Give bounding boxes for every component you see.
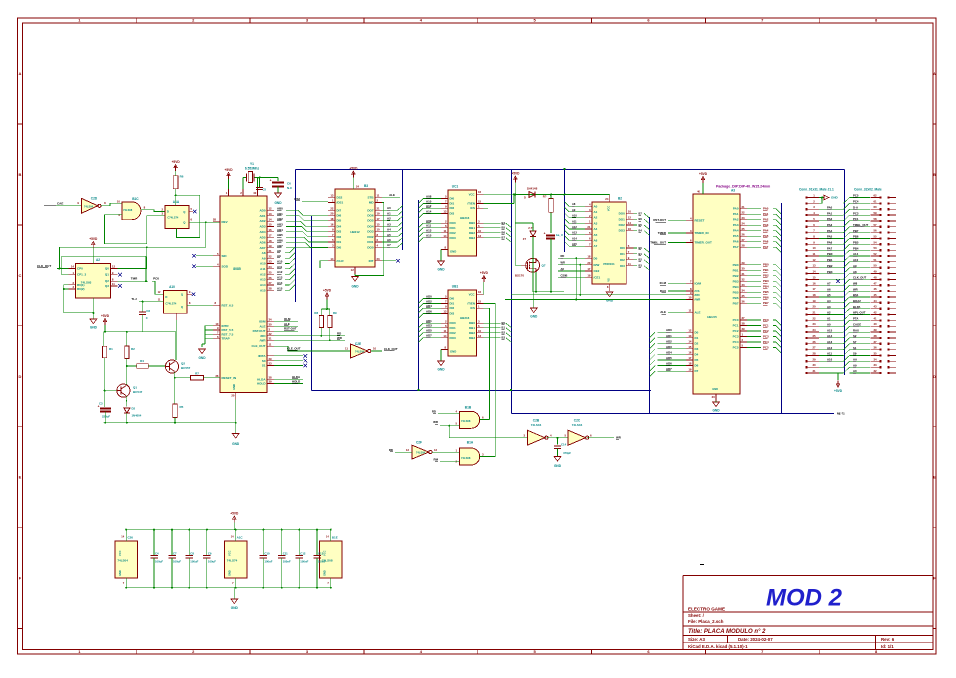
- svg-text:AD2: AD2: [666, 339, 672, 343]
- svg-text:ba_U: ba_U: [556, 233, 563, 237]
- svg-text:A9: A9: [277, 254, 281, 258]
- svg-text:6.553Mhz: 6.553Mhz: [245, 166, 260, 170]
- svg-text:PA4: PA4: [733, 229, 739, 233]
- svg-text:GND: GND: [530, 315, 538, 319]
- svg-text:13: 13: [812, 264, 816, 268]
- svg-text:CLK_OUT: CLK_OUT: [37, 264, 51, 268]
- svg-text:46: 46: [873, 287, 877, 291]
- svg-text:PB4: PB4: [763, 285, 769, 289]
- svg-text:14: 14: [443, 334, 447, 338]
- svg-text:B2: B2: [618, 197, 622, 201]
- svg-text:B5: B5: [639, 223, 643, 227]
- svg-text:74LS04: 74LS04: [117, 559, 128, 563]
- svg-text:+5VD: +5VD: [172, 160, 181, 164]
- svg-text:WR: WR: [561, 261, 565, 265]
- svg-text:PC5: PC5: [733, 346, 739, 350]
- svg-text:32: 32: [269, 332, 273, 336]
- svg-text:24: 24: [605, 197, 609, 201]
- svg-text:A14: A14: [572, 236, 577, 240]
- svg-text:PC5: PC5: [763, 346, 769, 350]
- svg-text:A1: A1: [594, 210, 598, 214]
- svg-text:31: 31: [742, 272, 746, 276]
- svg-text:220uF: 220uF: [102, 415, 110, 419]
- svg-text:PC4: PC4: [763, 340, 769, 344]
- svg-text:ALE: ALE: [260, 325, 266, 329]
- svg-text:74LS08: 74LS08: [461, 419, 471, 423]
- svg-text:PB2: PB2: [763, 274, 769, 278]
- svg-text:21: 21: [269, 249, 273, 253]
- svg-text:GND: GND: [606, 299, 614, 303]
- svg-text:100nF: 100nF: [300, 560, 308, 564]
- svg-text:PB3: PB3: [827, 270, 833, 274]
- svg-text:ELECTRO GAME: ELECTRO GAME: [688, 606, 725, 611]
- svg-text:A15: A15: [827, 328, 833, 332]
- svg-text:A0: A0: [827, 322, 831, 326]
- svg-text:D0: D0: [594, 256, 598, 260]
- svg-text:HB216: HB216: [460, 216, 470, 220]
- svg-text:C10: C10: [264, 552, 270, 556]
- svg-text:GND: GND: [323, 570, 327, 576]
- svg-text:11: 11: [269, 342, 272, 346]
- svg-text:D: D: [165, 295, 167, 299]
- svg-text:40: 40: [873, 322, 877, 326]
- svg-text:PB6: PB6: [763, 296, 769, 300]
- svg-text:C14: C14: [561, 443, 567, 447]
- svg-text:DO0: DO0: [619, 212, 626, 216]
- svg-text:42: 42: [873, 311, 877, 315]
- svg-text:PA4: PA4: [827, 229, 833, 233]
- svg-text:File: Placa_2.sch: File: Placa_2.sch: [688, 619, 724, 624]
- svg-text:TLJ: TLJ: [131, 297, 137, 301]
- svg-text:A6: A6: [594, 239, 598, 243]
- svg-text:PB0: PB0: [763, 263, 769, 267]
- svg-text:WR: WR: [853, 287, 858, 291]
- svg-text:AB6: AB6: [277, 239, 283, 243]
- svg-text:16: 16: [478, 190, 482, 194]
- svg-text:VCC: VCC: [227, 550, 231, 556]
- svg-text:N.C: N.C: [287, 186, 293, 190]
- svg-text:23: 23: [377, 257, 381, 261]
- svg-text:19: 19: [688, 367, 692, 371]
- svg-text:47: 47: [873, 281, 877, 285]
- svg-text:AB3: AB3: [277, 222, 283, 226]
- svg-text:11: 11: [444, 329, 447, 333]
- svg-text:/RD: /RD: [260, 334, 266, 338]
- svg-text:33: 33: [269, 362, 273, 366]
- svg-text:A11: A11: [426, 224, 432, 228]
- svg-text:AB1: AB1: [277, 212, 283, 216]
- svg-text:56: 56: [873, 229, 877, 233]
- svg-text:A11: A11: [827, 352, 832, 356]
- svg-text:100uF: 100uF: [208, 560, 216, 564]
- svg-text:PC3: PC3: [853, 211, 859, 215]
- svg-text:PB7: PB7: [853, 229, 859, 233]
- svg-text:GND: GND: [712, 387, 718, 391]
- svg-text:A14: A14: [277, 281, 283, 285]
- svg-text:16: 16: [269, 228, 273, 232]
- svg-text:BOA2: BOA2: [853, 299, 861, 303]
- svg-text:15: 15: [688, 345, 692, 349]
- svg-text:/INTA: /INTA: [258, 354, 266, 358]
- svg-text:A2: A2: [96, 258, 100, 262]
- svg-text:GND: GND: [90, 326, 98, 330]
- svg-text:DI2: DI2: [620, 258, 625, 262]
- svg-text:PA5: PA5: [827, 235, 833, 239]
- svg-text:24: 24: [269, 265, 273, 269]
- svg-text:RESET_IN: RESET_IN: [222, 376, 237, 380]
- svg-text:B7: B7: [639, 211, 643, 215]
- svg-text:10: 10: [377, 228, 381, 232]
- svg-text:DI1: DI1: [450, 202, 455, 206]
- svg-text:Size: A3: Size: A3: [688, 637, 705, 642]
- svg-text:A08: A08: [426, 195, 432, 199]
- svg-text:VCC: VCC: [469, 293, 475, 297]
- svg-text:AD6: AD6: [666, 362, 672, 366]
- svg-text:GND: GND: [450, 250, 456, 254]
- svg-text:CAE: CAE: [57, 202, 63, 206]
- svg-text:C2D: C2D: [91, 197, 98, 201]
- svg-text:DO0: DO0: [450, 321, 457, 325]
- svg-text:DI1: DI1: [450, 302, 455, 306]
- svg-text:D0: D0: [695, 330, 699, 334]
- svg-text:PB7: PB7: [763, 301, 769, 305]
- svg-text:B6: B6: [502, 231, 506, 235]
- svg-text:AD0: AD0: [259, 209, 265, 213]
- svg-text:A14: A14: [260, 283, 266, 287]
- svg-text:/CS: /CS: [470, 206, 475, 210]
- svg-text:HPL-OUT: HPL-OUT: [853, 311, 866, 315]
- svg-text:11: 11: [345, 347, 348, 351]
- svg-text:C5: C5: [263, 188, 267, 192]
- svg-text:23: 23: [812, 322, 816, 326]
- svg-text:B4: B4: [639, 229, 643, 233]
- svg-text:R?: R?: [543, 195, 547, 199]
- svg-text:11: 11: [377, 194, 380, 198]
- svg-text:PA2: PA2: [827, 217, 833, 221]
- svg-text:62: 62: [873, 194, 877, 198]
- svg-text:+5VD: +5VD: [224, 168, 233, 172]
- svg-text:DO1: DO1: [367, 240, 374, 244]
- svg-text:RAX: RAX: [853, 328, 859, 332]
- svg-text:21: 21: [377, 206, 381, 210]
- svg-text:A1A: A1A: [173, 200, 180, 204]
- svg-text:PB6: PB6: [853, 235, 859, 239]
- svg-text:A12: A12: [260, 272, 266, 276]
- svg-text:DI3: DI3: [450, 312, 455, 316]
- svg-text:CE2: CE2: [594, 269, 600, 273]
- svg-text:A5: A5: [387, 233, 391, 237]
- svg-text:S2: S2: [853, 334, 857, 338]
- svg-text:ALE: ALE: [389, 193, 395, 197]
- svg-text:R5: R5: [180, 405, 184, 409]
- svg-text:A5: A5: [594, 233, 598, 237]
- svg-text:HOLD: HOLD: [292, 379, 300, 383]
- svg-text:13: 13: [478, 334, 482, 338]
- svg-text:14: 14: [688, 340, 692, 344]
- svg-text:PA6: PA6: [763, 240, 769, 244]
- svg-text:PB0: PB0: [733, 263, 739, 267]
- svg-text:C74LS74: C74LS74: [167, 216, 179, 220]
- svg-text:PC4: PC4: [853, 200, 859, 204]
- svg-text:TMR: TMR: [131, 277, 138, 281]
- svg-text:A10: A10: [853, 258, 859, 262]
- svg-text:A2: A2: [594, 216, 598, 220]
- svg-text:+5VD: +5VD: [511, 172, 520, 176]
- svg-text:28: 28: [812, 351, 816, 355]
- svg-text:/CS: /CS: [470, 306, 475, 310]
- svg-text:34: 34: [873, 357, 877, 361]
- svg-text:A10: A10: [260, 262, 266, 266]
- svg-text:Conn_01x31_Male J1.1: Conn_01x31_Male J1.1: [799, 188, 834, 192]
- svg-text:43: 43: [873, 305, 877, 309]
- svg-text:PDR101: PDR101: [603, 262, 615, 266]
- svg-text:ALE: ALE: [284, 322, 290, 326]
- svg-text:AB2: AB2: [277, 217, 283, 221]
- svg-text:TMBL_OUT: TMBL_OUT: [650, 241, 666, 245]
- svg-text:A11: A11: [277, 265, 283, 269]
- svg-text:PB4: PB4: [853, 246, 859, 250]
- svg-text:PA5: PA5: [733, 234, 739, 238]
- svg-text:34: 34: [269, 318, 273, 322]
- svg-text:C9: C9: [208, 552, 212, 556]
- svg-text:39: 39: [873, 328, 877, 332]
- svg-text:13: 13: [443, 210, 447, 214]
- svg-text:B3: B3: [502, 336, 506, 340]
- svg-text:20: 20: [330, 212, 334, 216]
- svg-text:Conn_32x02_Male: Conn_32x02_Male: [854, 188, 882, 192]
- svg-text:AD5: AD5: [426, 329, 432, 333]
- svg-text:A6: A6: [827, 287, 831, 291]
- svg-text:Rev: 6: Rev: 6: [881, 637, 895, 642]
- svg-text:A13: A13: [572, 231, 577, 235]
- svg-text:11: 11: [813, 252, 816, 256]
- svg-text:R0(2): R0(2): [77, 287, 85, 291]
- svg-text:DB3: DB3: [469, 336, 475, 340]
- svg-text:DO3: DO3: [450, 236, 457, 240]
- svg-text:MOD 2: MOD 2: [766, 585, 843, 612]
- svg-text:HB212: HB212: [350, 230, 360, 234]
- svg-text:Q2: Q2: [181, 362, 185, 366]
- svg-text:RST_6.5: RST_6.5: [222, 304, 234, 308]
- svg-text:17: 17: [812, 287, 816, 291]
- svg-text:RAX: RAX: [660, 289, 666, 293]
- svg-text:CLK_OUT: CLK_OUT: [853, 276, 866, 280]
- svg-text:TIMER_IN: TIMER_IN: [695, 231, 709, 235]
- svg-text:A0: A0: [853, 369, 857, 373]
- svg-text:IO-M: IO-M: [284, 317, 291, 321]
- svg-text:IO-M: IO-M: [660, 281, 667, 285]
- svg-text:18: 18: [587, 254, 591, 258]
- svg-text:PA3: PA3: [733, 223, 739, 227]
- svg-text:11: 11: [444, 229, 447, 233]
- svg-text:RESET: RESET: [695, 218, 705, 222]
- svg-text:33: 33: [873, 363, 877, 367]
- svg-text:+: +: [270, 179, 272, 183]
- svg-text:C26: C26: [127, 536, 133, 540]
- svg-text:A10: A10: [426, 200, 432, 204]
- svg-text:AD4: AD4: [666, 350, 672, 354]
- svg-text:A4: A4: [594, 227, 598, 231]
- svg-text:B1: B1: [502, 326, 506, 330]
- svg-text:C: C: [933, 273, 936, 278]
- svg-text:74LS04: 74LS04: [416, 451, 426, 455]
- svg-text:RST-OUT: RST-OUT: [653, 218, 666, 222]
- svg-text:13: 13: [269, 212, 273, 216]
- svg-text:36: 36: [873, 346, 877, 350]
- svg-text:DO2: DO2: [619, 223, 626, 227]
- svg-text:29: 29: [742, 261, 746, 265]
- svg-text:28: 28: [213, 218, 217, 222]
- svg-text:PTA: PTA: [853, 317, 858, 321]
- svg-text:KiCad E.D.A. kicad (5.1.10)-1: KiCad E.D.A. kicad (5.1.10)-1: [688, 644, 748, 649]
- svg-text:DI4: DI4: [337, 225, 342, 229]
- svg-text:DI0: DI0: [450, 197, 455, 201]
- svg-text:29: 29: [812, 357, 816, 361]
- svg-text:VS: VS: [608, 278, 611, 282]
- svg-text:HLDA: HLDA: [292, 375, 301, 379]
- svg-text:GND: GND: [274, 201, 282, 205]
- svg-text:A13: A13: [827, 340, 833, 344]
- svg-text:A10: A10: [277, 260, 283, 264]
- svg-text:PC5: PC5: [853, 194, 859, 198]
- svg-text:41: 41: [873, 316, 877, 320]
- svg-text:AD7: AD7: [426, 334, 432, 338]
- svg-text:R4: R4: [140, 359, 144, 363]
- svg-text:A8: A8: [277, 249, 281, 253]
- svg-text:BS170: BS170: [515, 274, 525, 278]
- svg-text:DO3: DO3: [450, 336, 457, 340]
- svg-text:A1: A1: [387, 211, 391, 215]
- svg-text:Q0: Q0: [105, 267, 109, 271]
- svg-text:15: 15: [478, 300, 482, 304]
- svg-text:D: D: [19, 374, 22, 379]
- svg-text:26: 26: [812, 340, 816, 344]
- svg-text:D2: D2: [132, 407, 136, 411]
- svg-text:D6: D6: [695, 364, 699, 368]
- svg-text:27: 27: [269, 281, 273, 285]
- svg-text:TMER: TMER: [658, 231, 667, 235]
- svg-text:29: 29: [269, 357, 273, 361]
- svg-text:R7: R7: [195, 372, 199, 376]
- svg-text:16: 16: [628, 227, 632, 231]
- svg-text:B4: B4: [502, 221, 506, 225]
- svg-text:58: 58: [873, 217, 877, 221]
- svg-text:12: 12: [112, 265, 116, 269]
- svg-text:C: C: [146, 316, 148, 320]
- svg-text:GND: GND: [554, 464, 562, 468]
- svg-text:AD5: AD5: [666, 356, 672, 360]
- svg-text:22: 22: [330, 206, 334, 210]
- svg-text:16: 16: [330, 223, 334, 227]
- svg-text:A10: A10: [827, 358, 833, 362]
- svg-text:31: 31: [269, 336, 273, 340]
- svg-text:CLE_OUT: CLE_OUT: [251, 344, 265, 348]
- svg-text:19: 19: [377, 212, 381, 216]
- svg-text:A2: A2: [387, 217, 391, 221]
- svg-text:D1: D1: [695, 336, 699, 340]
- svg-text:AD4: AD4: [259, 230, 265, 234]
- svg-text:PC2: PC2: [763, 329, 769, 333]
- svg-text:DI5: DI5: [337, 219, 342, 223]
- svg-text:53: 53: [873, 246, 877, 250]
- svg-text:DO3: DO3: [619, 229, 626, 233]
- svg-text:HOLD: HOLD: [257, 382, 266, 386]
- svg-text:PA7: PA7: [733, 245, 739, 249]
- svg-text:13: 13: [478, 234, 482, 238]
- svg-text:DO5: DO5: [367, 219, 374, 223]
- svg-text:DB2: DB2: [469, 231, 475, 235]
- svg-text:VCC: VCC: [608, 206, 611, 211]
- svg-text:SID: SID: [222, 254, 228, 258]
- svg-text:52: 52: [873, 252, 877, 256]
- svg-text:AD7: AD7: [666, 367, 672, 371]
- svg-text:13: 13: [688, 334, 692, 338]
- svg-text:16: 16: [688, 351, 692, 355]
- svg-text:100uF: 100uF: [190, 560, 198, 564]
- svg-text:PB1: PB1: [733, 268, 739, 272]
- svg-text:20: 20: [231, 394, 235, 398]
- svg-text:14: 14: [628, 221, 632, 225]
- svg-text:A5: A5: [827, 293, 831, 297]
- svg-text:GND: GND: [437, 368, 445, 372]
- svg-text:B1A: B1A: [467, 441, 474, 445]
- svg-text:AD6: AD6: [426, 310, 432, 314]
- svg-text:Q2: Q2: [105, 279, 109, 283]
- svg-text:23: 23: [269, 260, 273, 264]
- svg-text:16: 16: [478, 290, 482, 294]
- svg-text:A4: A4: [827, 299, 831, 303]
- svg-text:PA5: PA5: [763, 234, 769, 238]
- svg-text:10: 10: [812, 246, 816, 250]
- svg-text:A9: A9: [572, 208, 576, 212]
- svg-text:PC3: PC3: [763, 335, 769, 339]
- svg-text:PB7: PB7: [733, 301, 739, 305]
- svg-text:DO1: DO1: [619, 217, 626, 221]
- svg-text:14: 14: [269, 217, 273, 221]
- svg-text:B7: B7: [502, 236, 506, 240]
- svg-text:25: 25: [269, 270, 273, 274]
- svg-text:+5VD: +5VD: [323, 289, 332, 293]
- svg-text:PA3: PA3: [827, 223, 833, 227]
- svg-text:A7: A7: [594, 244, 598, 248]
- svg-text:RD: RD: [389, 448, 393, 452]
- svg-text:+5VD: +5VD: [89, 237, 98, 241]
- svg-text:CLE_OUT: CLE_OUT: [287, 347, 301, 351]
- svg-text:74LS04: 74LS04: [531, 423, 542, 427]
- svg-text:A10: A10: [572, 214, 577, 218]
- svg-text:DI2: DI2: [450, 306, 455, 310]
- svg-text:B3: B3: [364, 184, 368, 188]
- svg-text:PC2: PC2: [733, 329, 739, 333]
- svg-text:/CLR: /CLR: [337, 259, 345, 263]
- svg-text:35: 35: [742, 294, 746, 298]
- svg-text:HBL55: HBL55: [707, 315, 717, 319]
- svg-text:100uF: 100uF: [173, 560, 181, 564]
- svg-text:GND: GND: [450, 350, 456, 354]
- svg-text:A7: A7: [387, 243, 391, 247]
- svg-text:A8: A8: [853, 270, 857, 274]
- svg-text:PA2: PA2: [733, 218, 739, 222]
- svg-text:VCC: VCC: [469, 193, 475, 197]
- svg-text:RD: RD: [561, 254, 565, 258]
- svg-text:R1: R1: [109, 347, 113, 351]
- svg-text:D-A: D-A: [853, 205, 858, 209]
- svg-text:DS2: DS2: [294, 197, 300, 201]
- svg-text:PC0: PC0: [763, 318, 769, 322]
- svg-text:C8: C8: [146, 309, 150, 313]
- svg-text:A3: A3: [594, 221, 598, 225]
- svg-text:B1E: B1E: [332, 536, 338, 540]
